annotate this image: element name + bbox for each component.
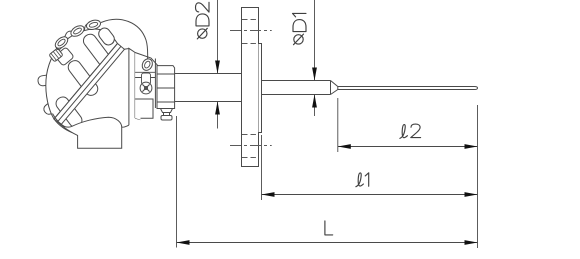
neck tube (175, 74, 243, 102)
dimension line L (177, 240, 478, 245)
flange hub (raised face) (259, 44, 262, 133)
label L (325, 221, 333, 235)
dimension phi-D2 upper arrow (215, 0, 220, 74)
label phi-D1 (293, 13, 307, 44)
lid face rib C (81, 32, 113, 69)
lid bump top (61, 30, 76, 49)
chain small link at knob (55, 43, 63, 51)
flange bolt hole top centerline (230, 30, 272, 32)
lid face rib A (54, 95, 85, 130)
lid bump left (37, 74, 58, 87)
flange bolt hole top (hidden lines) (242, 20, 258, 44)
head body (61, 117, 122, 148)
body edge between band and plate (124, 48, 128, 51)
lid face rib B (66, 58, 100, 98)
probe sheath (262, 81, 331, 95)
dimension phi-D1 upper arrow (312, 0, 317, 81)
screw head on plate (140, 82, 152, 94)
lid face rib D (partial, top right) (96, 26, 116, 47)
chain link 3 (85, 18, 101, 31)
lid bottom edge wrap (53, 114, 73, 133)
extension line l1 left (261, 135, 263, 200)
head side block (side face) (122, 48, 141, 127)
extension line l2 left (337, 98, 339, 152)
dimension phi-D2 lower arrow (215, 102, 220, 129)
label l1 (356, 173, 369, 187)
union fitting (157, 66, 175, 109)
extension line right (common) (477, 105, 479, 248)
lid bump lower-left (42, 96, 64, 116)
flange plate (242, 8, 259, 167)
label l2 (400, 124, 421, 138)
lid rim band (54, 44, 124, 125)
eyelet shoulder (142, 73, 151, 85)
cap knob boss (55, 47, 74, 66)
chain link 1 (53, 35, 70, 51)
thin element (338, 87, 478, 90)
lid face outline (tilted disc) (46, 29, 118, 119)
dimension line l1 (262, 192, 478, 197)
head front face block (135, 53, 158, 121)
chain slack arc (101, 19, 148, 59)
cap knob (chain anchor on lid) (49, 48, 63, 62)
probe tip cone (331, 81, 338, 95)
flange bolt hole bottom (hidden lines) (242, 135, 258, 158)
label phi-D2 (196, 2, 210, 39)
lid bump top-right (83, 23, 95, 40)
extension line L left (176, 116, 178, 248)
drain nipple (161, 109, 173, 121)
eyelet link on head (140, 57, 154, 72)
chain link 2 (69, 24, 86, 39)
flange bolt hole bottom centerline (230, 145, 272, 147)
dimension line l2 (338, 144, 478, 149)
dimension phi-D1 lower arrow (312, 95, 317, 117)
